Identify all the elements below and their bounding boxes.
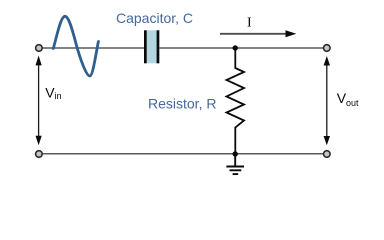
svg-text:Capacitor, C: Capacitor, C [116, 10, 193, 26]
terminal bottom-right [324, 151, 331, 158]
Vout arrow [324, 56, 330, 145]
wire bottom (ground return) [43, 153, 324, 155]
wire top (node between source, capacitor, resistor, output) [43, 47, 324, 49]
capacitor C1 left plate [144, 30, 147, 63]
node junction top (capacitor-resistor-output) [233, 45, 238, 50]
svg-text:I: I [247, 16, 252, 31]
terminal top-left [36, 45, 43, 52]
resistor R1 [227, 48, 245, 154]
terminal bottom-left [36, 151, 43, 158]
capacitor C1 body [144, 30, 159, 63]
capacitor C1 right plate [157, 30, 160, 63]
current arrow I [220, 30, 296, 37]
terminal top-right [324, 45, 331, 52]
svg-text:Vout: Vout [337, 90, 359, 108]
Vin arrow [36, 56, 42, 146]
node junction bottom (resistor-ground) [233, 151, 238, 156]
source sine wave [53, 16, 98, 76]
svg-text:Vin: Vin [45, 85, 61, 102]
ground [226, 154, 244, 174]
svg-text:Resistor, R: Resistor, R [148, 96, 216, 112]
